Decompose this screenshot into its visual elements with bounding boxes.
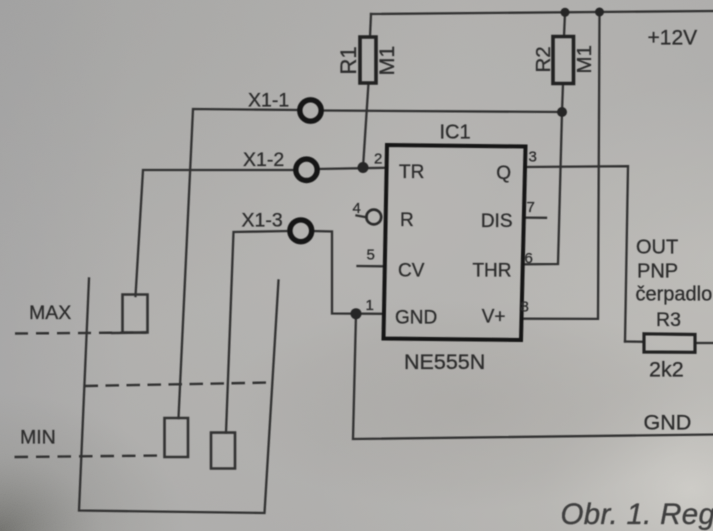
svg-text:IC1: IC1: [440, 122, 471, 144]
svg-text:X1-2: X1-2: [243, 149, 284, 171]
svg-text:3: 3: [529, 149, 537, 166]
svg-text:R1: R1: [336, 46, 361, 74]
svg-text:Obr. 1. Reg: Obr. 1. Reg: [561, 498, 713, 531]
svg-text:V+: V+: [482, 307, 506, 328]
svg-text:GND: GND: [395, 308, 437, 329]
svg-text:GND: GND: [644, 411, 692, 435]
svg-text:R: R: [400, 210, 414, 231]
svg-text:M1: M1: [573, 45, 596, 73]
svg-text:R2: R2: [532, 46, 555, 72]
svg-text:CV: CV: [398, 261, 425, 282]
svg-text:4: 4: [353, 200, 361, 217]
svg-text:THR: THR: [472, 261, 511, 282]
svg-text:MAX: MAX: [29, 302, 71, 324]
svg-text:8: 8: [521, 299, 529, 316]
svg-text:2: 2: [374, 151, 382, 168]
svg-text:PNP: PNP: [637, 261, 678, 283]
svg-text:NE555N: NE555N: [404, 350, 485, 374]
svg-text:MIN: MIN: [20, 427, 56, 449]
svg-text:DIS: DIS: [481, 211, 513, 232]
svg-text:TR: TR: [399, 162, 424, 183]
svg-text:6: 6: [525, 250, 533, 267]
svg-text:OUT: OUT: [636, 237, 678, 259]
svg-text:5: 5: [367, 247, 375, 264]
svg-text:M1: M1: [375, 46, 399, 76]
svg-text:R3: R3: [656, 309, 681, 331]
svg-text:Q: Q: [496, 163, 511, 184]
svg-text:X1-1: X1-1: [248, 90, 289, 112]
svg-text:7: 7: [527, 199, 535, 216]
svg-text:+12V: +12V: [648, 27, 698, 50]
svg-text:X1-3: X1-3: [242, 210, 283, 232]
svg-text:1: 1: [366, 297, 374, 314]
svg-text:2k2: 2k2: [649, 358, 684, 382]
svg-text:čerpadlo: čerpadlo: [636, 284, 713, 306]
